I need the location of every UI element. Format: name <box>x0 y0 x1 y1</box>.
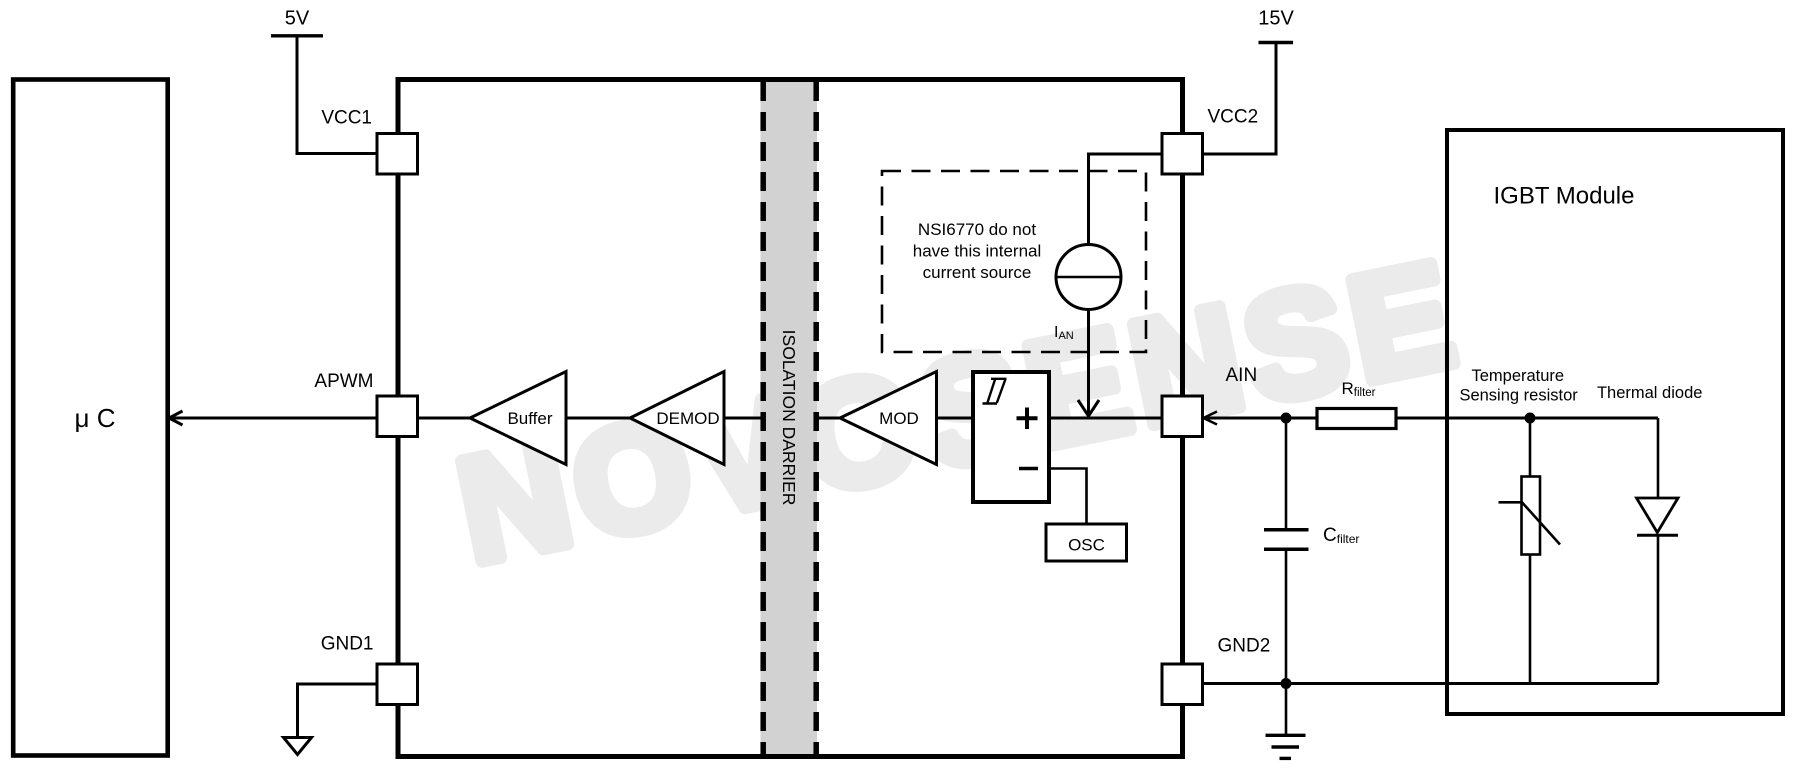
wire GND1 to ground <box>298 684 378 738</box>
svg-text:AIN: AIN <box>1226 365 1258 386</box>
hysteresis symbol <box>983 379 1007 404</box>
plus input <box>1017 408 1038 430</box>
wire 5V to VCC1 <box>297 38 377 154</box>
svg-text:IGBT Module: IGBT Module <box>1494 183 1635 210</box>
svg-text:Temperature: Temperature <box>1471 367 1564 385</box>
arrowhead into microcontroller <box>169 411 183 425</box>
svg-text:Sensing resistor: Sensing resistor <box>1459 387 1578 405</box>
thermistor RT <box>1529 418 1532 477</box>
wire DEMOD to barrier <box>724 417 761 420</box>
isolated amplifier IC box <box>398 80 1183 757</box>
svg-text:APWM: APWM <box>314 371 373 392</box>
node at thermistor <box>1525 413 1536 424</box>
wire Buffer to DEMOD <box>566 417 630 420</box>
svg-text:GND2: GND2 <box>1218 636 1271 657</box>
minus input <box>1019 467 1038 471</box>
svg-text:15V: 15V <box>1258 8 1294 30</box>
svg-text:OSC: OSC <box>1068 536 1105 555</box>
wire MOD to comparator <box>937 417 974 420</box>
microcontroller box <box>13 80 168 756</box>
node at GND2 ground <box>1281 678 1292 689</box>
svg-text:current source: current source <box>923 263 1032 282</box>
DEMOD block <box>630 372 724 465</box>
wire Rfilter to IGBT module <box>1396 417 1658 420</box>
current source I1 <box>1056 245 1121 310</box>
thermal diode D1 <box>1657 418 1660 498</box>
svg-text:NSI6770 do not: NSI6770 do not <box>918 220 1036 239</box>
pin VCC1 <box>377 134 418 175</box>
IGBT Module box <box>1447 130 1783 714</box>
pin GND1 <box>377 664 418 705</box>
wire AIN external <box>1204 417 1318 420</box>
pin GND2 <box>1162 664 1203 705</box>
wire comparator to AIN pin <box>1049 417 1162 420</box>
isolation barrier band <box>761 82 818 754</box>
arrowhead into AIN <box>1204 412 1218 425</box>
svg-text:5V: 5V <box>285 8 310 30</box>
svg-text:Thermal diode: Thermal diode <box>1597 384 1702 402</box>
capacitor Cfilter <box>1285 418 1288 528</box>
MOD block <box>840 372 937 465</box>
pin VCC2 <box>1162 134 1203 175</box>
comparator U1 <box>973 372 1049 502</box>
Buffer amplifier <box>470 372 566 465</box>
svg-text:ISOLATION DARRIER: ISOLATION DARRIER <box>779 330 799 506</box>
wire APWM pin to Buffer <box>418 417 471 420</box>
svg-text:VCC1: VCC1 <box>321 108 372 129</box>
svg-text:μ C: μ C <box>75 403 116 433</box>
ground symbol GND1 <box>284 738 312 755</box>
svg-text:VCC2: VCC2 <box>1208 107 1259 128</box>
wire APWM to microcontroller <box>169 417 377 420</box>
svg-text:have this internal: have this internal <box>913 242 1042 261</box>
wire 15V to VCC2 <box>1203 44 1277 154</box>
ground symbol GND2 <box>1285 684 1288 735</box>
svg-text:Buffer: Buffer <box>507 409 552 428</box>
5V supply symbol <box>271 34 323 37</box>
wire GND2 net <box>1203 682 1659 685</box>
svg-text:DEMOD: DEMOD <box>656 409 719 428</box>
resistor Rfilter <box>1317 409 1396 429</box>
pin AIN <box>1162 396 1203 437</box>
wire current source to AIN net with arrow <box>1087 310 1090 415</box>
svg-text:MOD: MOD <box>879 409 919 428</box>
svg-text:GND1: GND1 <box>321 634 374 655</box>
isolation barrier right dashed line <box>813 82 819 754</box>
wire comparator minus to OSC <box>1049 469 1087 525</box>
isolation barrier left dashed line <box>760 82 766 754</box>
wire VCC2 to current source <box>1089 154 1163 245</box>
15V supply symbol <box>1259 41 1294 44</box>
wire barrier to MOD <box>818 417 841 420</box>
wire Cfilter to GND2 net <box>1285 551 1288 684</box>
node at Cfilter <box>1281 413 1292 424</box>
OSC block <box>1046 524 1127 561</box>
pin APWM <box>377 396 418 437</box>
dashed note box <box>882 171 1146 352</box>
